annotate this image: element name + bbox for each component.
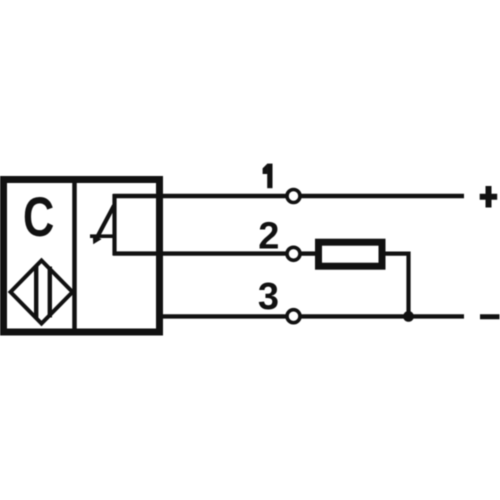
sensing-face diamond <box>11 261 73 324</box>
wire 1 continuation <box>301 194 464 198</box>
wire 2 to load <box>301 251 316 255</box>
branch wire down <box>406 252 410 317</box>
terminal circle 1 <box>287 190 300 203</box>
switch vertical link <box>112 194 116 256</box>
svg-text:3: 3 <box>258 276 279 318</box>
load resistor <box>319 242 383 266</box>
diamond inner right bar <box>48 267 52 318</box>
plus terminal <box>480 194 498 200</box>
terminal circle 2 <box>287 247 300 260</box>
label 1 <box>267 164 272 189</box>
svg-text:2: 2 <box>258 216 279 258</box>
switch fixed contact bar <box>90 234 115 238</box>
compartment divider <box>72 183 77 329</box>
minus terminal <box>480 314 500 319</box>
junction dot <box>403 311 414 322</box>
diamond inner left bar <box>34 267 38 318</box>
wire 3 <box>157 314 287 318</box>
switch lever arrowhead <box>93 235 102 244</box>
wire 3 continuation <box>301 314 464 318</box>
sensor body box <box>4 180 160 333</box>
terminal circle 3 <box>287 310 300 323</box>
switch lever <box>97 206 114 238</box>
wire 2 <box>113 251 287 255</box>
wire resistor to corner <box>385 252 408 256</box>
svg-text:C: C <box>23 186 54 248</box>
wire 1 <box>113 194 287 198</box>
